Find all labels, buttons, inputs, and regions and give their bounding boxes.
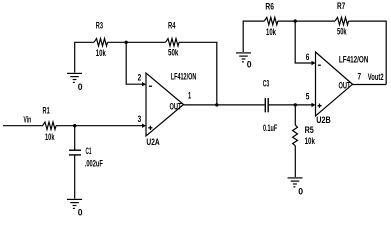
wire R3 to R4 [108, 41, 166, 43]
node junction R1/C1/pin3 [73, 124, 76, 127]
wire U2B output [353, 84, 387, 86]
svg-text:0: 0 [247, 59, 252, 69]
wire node to pin 6 [295, 21, 311, 63]
svg-text:Vin: Vin [24, 114, 32, 124]
svg-text:R1: R1 [43, 106, 50, 116]
svg-text:OUT: OUT [170, 102, 182, 112]
wire R7 to right corner [349, 21, 387, 84]
resistor R7 [335, 17, 349, 24]
svg-text:R7: R7 [337, 1, 345, 11]
wire Vin to R1 [3, 125, 43, 127]
svg-text:6: 6 [306, 52, 310, 62]
svg-text:1: 1 [188, 91, 191, 101]
wire ground stub to R6 [243, 21, 264, 52]
svg-text:3: 3 [138, 114, 142, 124]
svg-text:0: 0 [298, 186, 303, 196]
svg-text:U2A: U2A [146, 137, 160, 147]
wire node to C1 [74, 126, 76, 150]
resistor R1 [43, 122, 57, 129]
svg-text:LF412/ON: LF412/ON [339, 54, 369, 64]
ground 0 below R5 [288, 178, 304, 197]
ground 0 below C1 [67, 199, 83, 217]
svg-text:R5: R5 [305, 125, 314, 135]
svg-text:7: 7 [358, 71, 362, 81]
wire node to R5 [294, 105, 296, 125]
svg-text:50k: 50k [168, 48, 179, 58]
svg-text:5: 5 [306, 91, 310, 101]
resistor R4 [166, 39, 180, 46]
svg-text:C1: C1 [86, 146, 92, 156]
svg-text:2: 2 [138, 72, 142, 82]
svg-text:R4: R4 [168, 20, 176, 30]
capacitor C1 [69, 150, 81, 155]
svg-text:10k: 10k [305, 136, 316, 146]
svg-text:10k: 10k [96, 48, 107, 58]
op-amp U2A [142, 71, 196, 147]
svg-text:10k: 10k [45, 132, 55, 142]
capacitor C3 [265, 98, 268, 112]
ground 0 below R6 [236, 53, 252, 69]
svg-text:50k: 50k [337, 26, 347, 36]
svg-text:C3: C3 [263, 78, 269, 88]
resistor R3 [94, 39, 108, 46]
wire node to pin 2 [126, 42, 142, 84]
svg-text:10k: 10k [266, 27, 277, 37]
node junction C3/R5/pin5 [294, 103, 297, 106]
svg-text:LF412/ON: LF412/ON [171, 71, 197, 81]
svg-text:R3: R3 [96, 20, 103, 30]
op-amp U2B [312, 52, 369, 125]
wire U2A output to C3 [184, 104, 265, 106]
wire R4 to feedback corner [179, 42, 217, 105]
svg-text:Vout2: Vout2 [368, 72, 384, 82]
svg-text:OUT: OUT [339, 80, 351, 90]
wire R5 to ground [294, 146, 296, 177]
node junction R6/R7/pin6 [294, 19, 297, 22]
wire R6 to R7 [278, 20, 335, 22]
svg-text:R6: R6 [265, 1, 274, 11]
resistor R6 [264, 17, 278, 24]
svg-text:0: 0 [78, 82, 83, 92]
node junction R3/R4/pin2 [125, 41, 128, 44]
wire R1 to pin 3 [56, 125, 142, 127]
wire C1 to ground [74, 155, 76, 199]
svg-text:0.1uF: 0.1uF [263, 123, 277, 133]
node junction U2A out/R4 [215, 103, 218, 106]
svg-text:.002uF: .002uF [85, 158, 103, 168]
wire C3 to pin 5 [269, 104, 312, 106]
wire ground stub to R3 [75, 42, 94, 72]
resistor R5 [293, 125, 298, 146]
ground 0 below R3 [67, 73, 83, 92]
svg-text:0: 0 [78, 207, 83, 217]
svg-text:U2B: U2B [316, 115, 331, 125]
